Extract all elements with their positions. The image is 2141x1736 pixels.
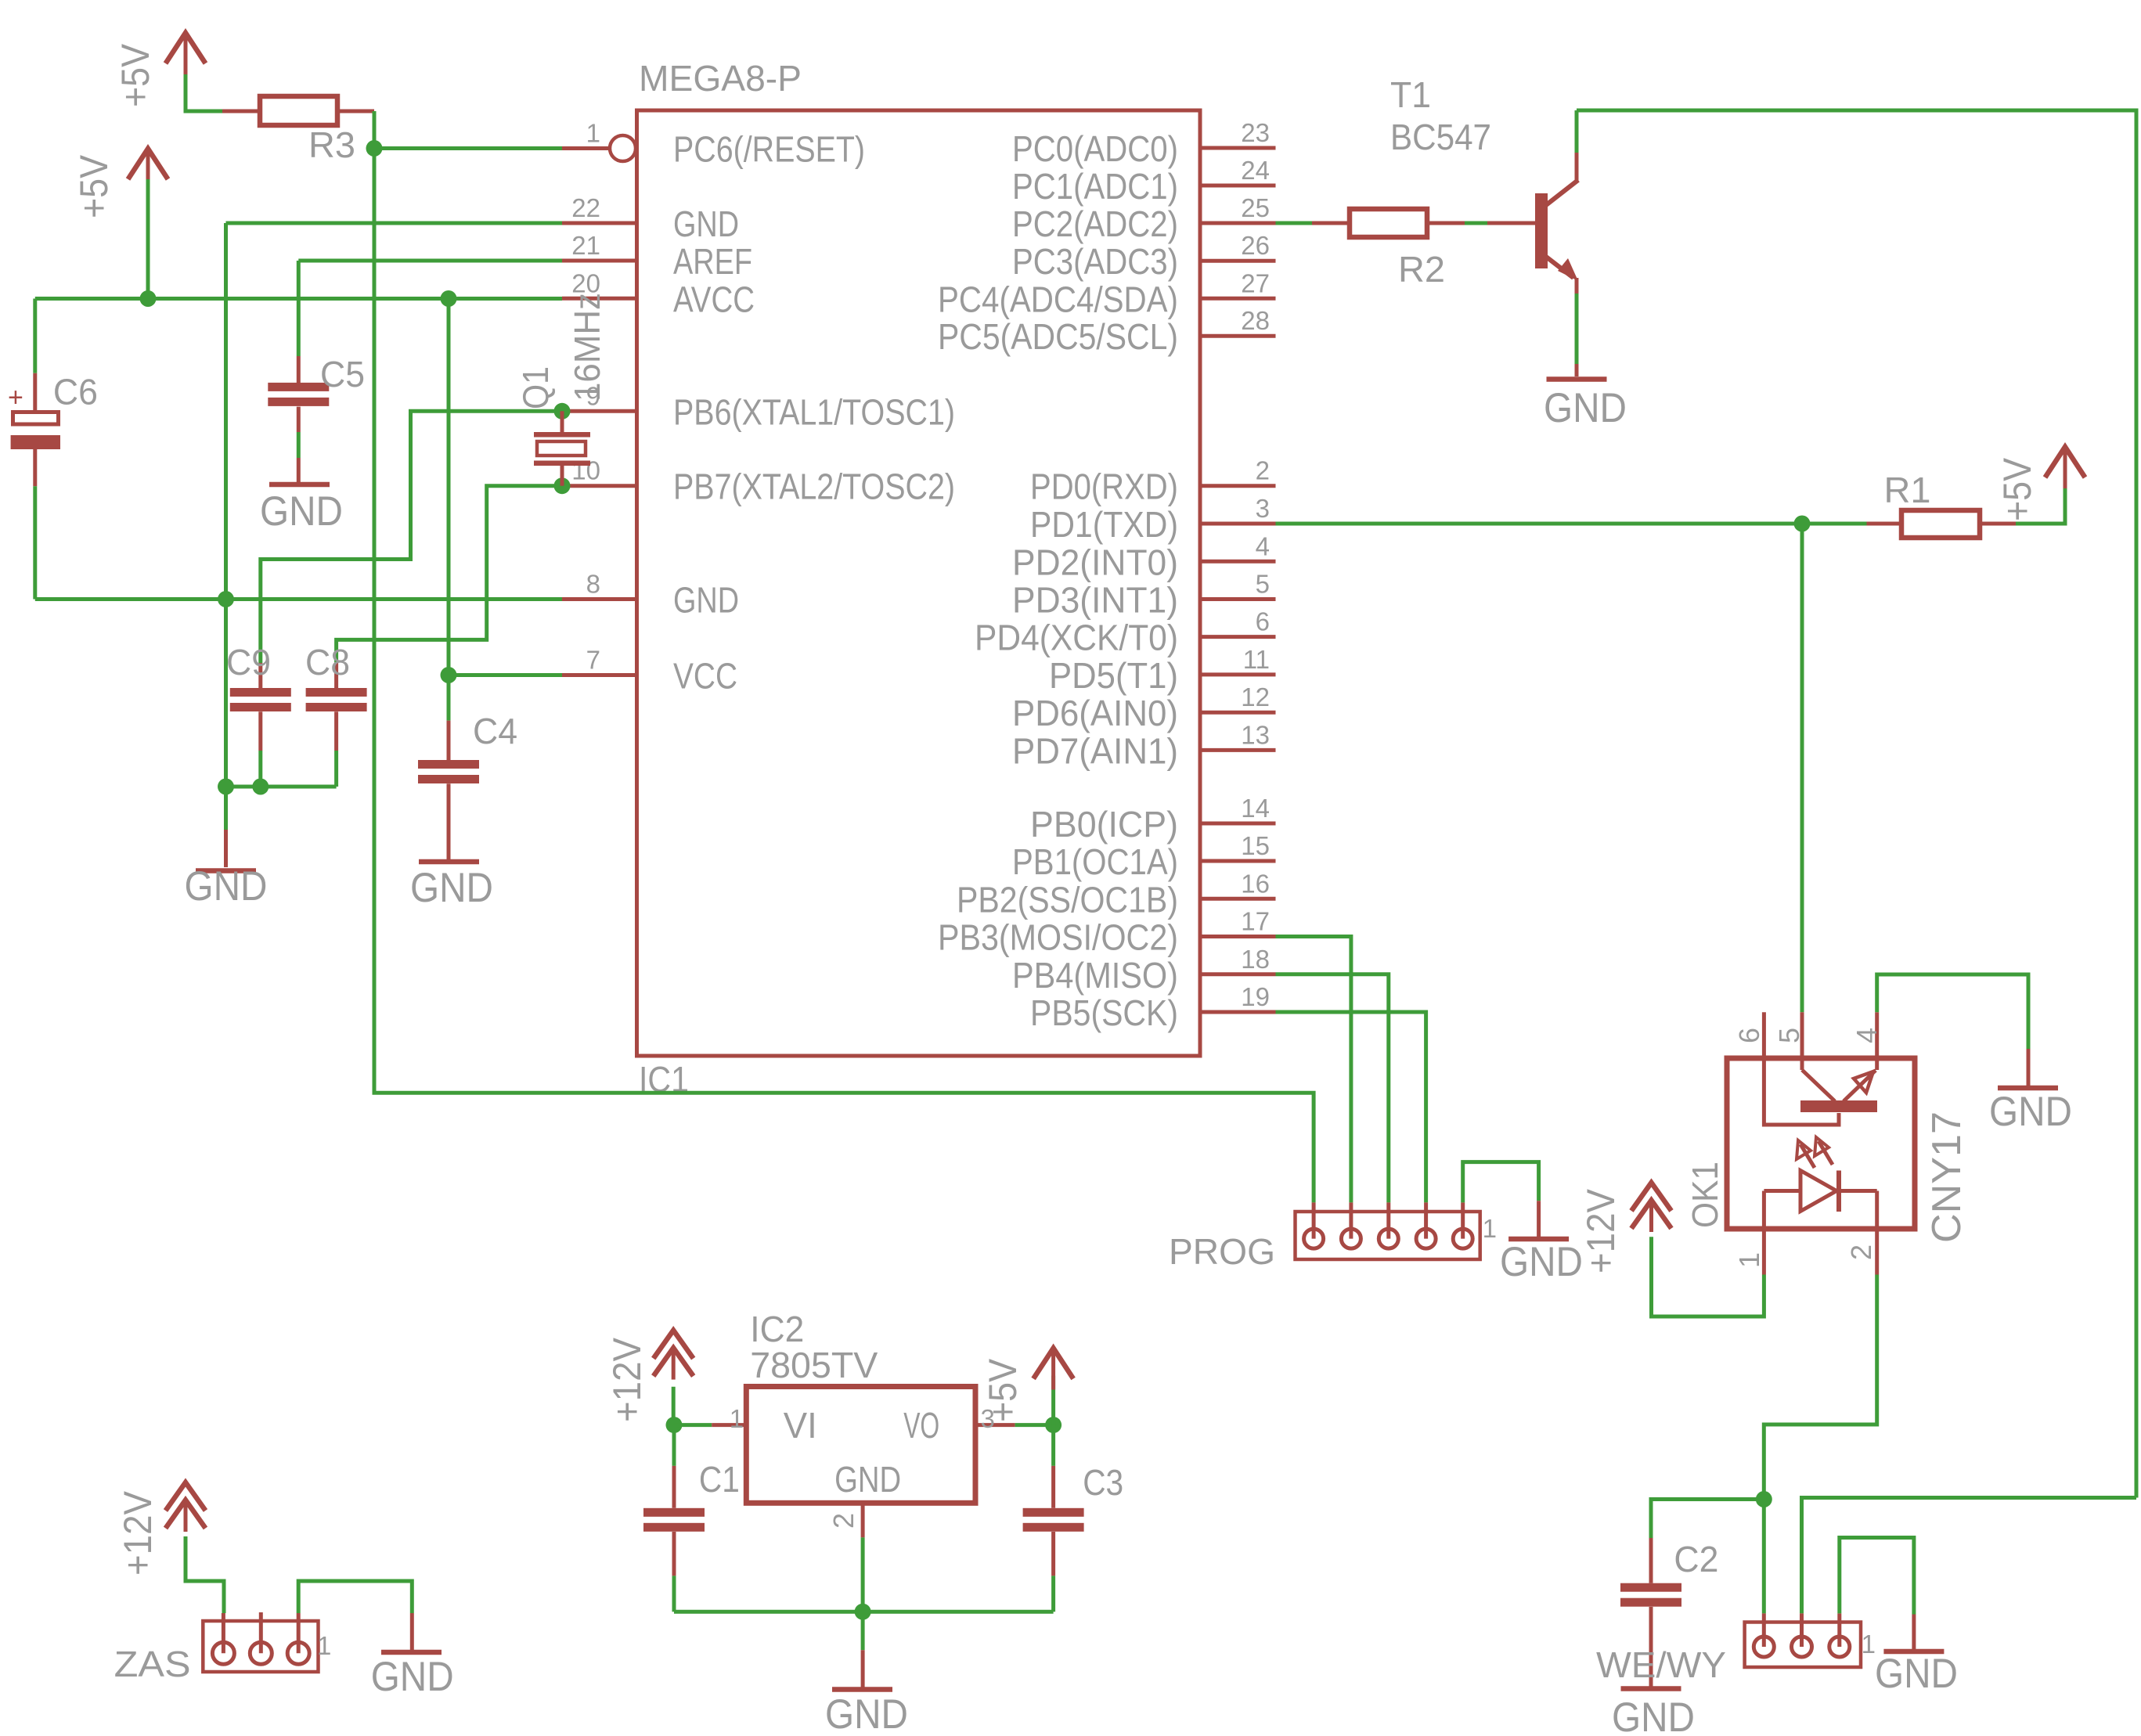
- svg-text:PD6(AIN0): PD6(AIN0): [1012, 693, 1178, 733]
- svg-text:PB0(ICP): PB0(ICP): [1030, 804, 1178, 845]
- svg-text:10: 10: [571, 456, 600, 485]
- IC1 pin 9 stub: [562, 409, 637, 413]
- svg-text:GND: GND: [834, 1459, 901, 1500]
- svg-text:1: 1: [1483, 1214, 1497, 1243]
- capacitor C1: [672, 1425, 676, 1466]
- wire R1 to +5V: [2016, 486, 2065, 524]
- wire collector net to WE/WY middle pin: [1802, 1498, 2137, 1614]
- svg-text:28: 28: [1241, 306, 1270, 335]
- svg-text:+5V: +5V: [1995, 457, 2039, 521]
- svg-text:PD2(INT0): PD2(INT0): [1012, 542, 1178, 582]
- svg-text:+12V: +12V: [605, 1337, 649, 1422]
- svg-text:PC0(ADC0): PC0(ADC0): [1012, 128, 1178, 169]
- IC1 pin 19 stub: [1201, 1010, 1276, 1014]
- junction VCC: [441, 667, 457, 683]
- wire XTAL1 net pin 9 to C9: [261, 411, 562, 663]
- ground symbol below IC2: [861, 1650, 865, 1687]
- wire T1 emitter to GND: [1575, 294, 1579, 364]
- svg-text:13: 13: [1241, 720, 1270, 749]
- IC1 pin 24 stub: [1201, 184, 1276, 188]
- junction +5V rail crystal branch: [441, 290, 457, 307]
- IC1 pin 7 stub: [562, 673, 637, 677]
- svg-text:PB1(OC1A): PB1(OC1A): [1012, 841, 1178, 882]
- wire +5V branch down to VCC pin 7: [447, 299, 451, 675]
- svg-text:GND: GND: [825, 1691, 908, 1736]
- svg-text:AVCC: AVCC: [673, 279, 755, 319]
- OK1 pin 4 lead: [1875, 1012, 1879, 1070]
- svg-text:PD1(TXD): PD1(TXD): [1030, 504, 1178, 545]
- IC2 pin 1 stub: [712, 1423, 746, 1427]
- transistor T1 BC547: [1487, 222, 1535, 225]
- IC1 pin 3 stub: [1201, 522, 1276, 526]
- svg-text:22: 22: [571, 193, 600, 222]
- IC1 pin 6 stub: [1201, 635, 1276, 639]
- wire IC2 GND down: [861, 1537, 865, 1650]
- wire T1 collector maroon stub: [1575, 153, 1579, 181]
- junction C9 bottom: [252, 779, 269, 795]
- svg-text:19: 19: [1241, 982, 1270, 1011]
- svg-text:2: 2: [827, 1513, 860, 1529]
- wire VCC pin 7: [449, 673, 562, 677]
- wire PB5 SCK to PROG: [1276, 1012, 1426, 1202]
- capacitor C4: [447, 721, 451, 760]
- wire PD1 TXD to R1: [1276, 522, 1803, 526]
- ground symbol right of ZAS: [410, 1613, 414, 1650]
- IC1 pin 2 stub: [1201, 484, 1276, 488]
- IC1 pin 28 stub: [1201, 334, 1276, 338]
- wire input junction to VI pin: [674, 1423, 712, 1427]
- wire GND pin22 horizontal: [226, 222, 563, 225]
- svg-text:GND: GND: [1989, 1089, 2072, 1135]
- junction IC2 input: [666, 1417, 683, 1433]
- svg-text:6: 6: [1256, 607, 1270, 636]
- svg-text:6: 6: [1733, 1028, 1765, 1043]
- capacitor C2: [1649, 1538, 1653, 1583]
- svg-text:C6: C6: [53, 372, 98, 412]
- svg-text:PROG: PROG: [1169, 1231, 1275, 1272]
- WE/WY pin lead 1: [1837, 1613, 1841, 1647]
- svg-text:R3: R3: [308, 124, 355, 165]
- junction GND caps: [218, 779, 234, 795]
- wire +12V to IC2 VI: [672, 1387, 676, 1425]
- ground symbol right of OK1: [2027, 1049, 2031, 1086]
- svg-text:C1: C1: [699, 1459, 740, 1500]
- IC1 pin 22 stub: [562, 222, 637, 225]
- ZAS pin lead left: [222, 1613, 225, 1653]
- svg-text:PD4(XCK/T0): PD4(XCK/T0): [975, 618, 1178, 658]
- svg-text:GND: GND: [1612, 1695, 1695, 1736]
- IC1 pin 11 stub: [1201, 672, 1276, 676]
- svg-text:PD0(RXD): PD0(RXD): [1030, 466, 1178, 507]
- svg-text:IC2: IC2: [750, 1309, 804, 1349]
- svg-text:PD5(T1): PD5(T1): [1049, 655, 1178, 696]
- svg-text:12: 12: [1241, 683, 1270, 711]
- wire GND vertical: [224, 223, 228, 830]
- junction IC2 output: [1045, 1417, 1061, 1433]
- svg-text:PC3(ADC3): PC3(ADC3): [1012, 241, 1178, 282]
- svg-text:7: 7: [586, 646, 600, 675]
- svg-text:ZAS: ZAS: [114, 1644, 191, 1684]
- svg-text:GND: GND: [1500, 1239, 1583, 1285]
- wire OK1 pin4 to GND: [1877, 974, 2028, 1049]
- wire PB4 MISO to PROG: [1276, 974, 1389, 1203]
- svg-text:16MHz: 16MHz: [567, 293, 607, 402]
- wire output junction up: [1051, 1376, 1055, 1425]
- svg-text:GND: GND: [1544, 385, 1627, 431]
- IC2 pin 2 stub: [861, 1503, 865, 1537]
- ground symbol below C9 C8: [224, 830, 228, 867]
- IC1 pin 27 stub: [1201, 297, 1276, 301]
- voltage regulator IC2 7805TV box: [746, 1387, 975, 1504]
- OK1 phototransistor base bar: [1800, 1100, 1877, 1112]
- svg-text:GND: GND: [1875, 1651, 1958, 1697]
- junction LED cathode net: [1756, 1491, 1772, 1507]
- svg-text:8: 8: [586, 570, 600, 599]
- svg-text:PB4(MISO): PB4(MISO): [1012, 955, 1178, 996]
- svg-text:17: 17: [1241, 907, 1270, 936]
- IC1 pin 5 stub: [1201, 597, 1276, 601]
- junction IC2 ground rail: [855, 1604, 871, 1620]
- svg-text:7805TV: 7805TV: [750, 1345, 878, 1385]
- svg-text:+5V: +5V: [114, 43, 157, 107]
- wire C5 to GND: [297, 432, 301, 458]
- IC1 pin 1 stub: [562, 146, 610, 150]
- wire C9 bottom: [258, 751, 262, 787]
- wire C8 bottom: [334, 751, 338, 787]
- svg-text:+12V: +12V: [1579, 1188, 1623, 1273]
- svg-text:VI: VI: [784, 1405, 817, 1446]
- IC1 pin 21 stub: [562, 259, 637, 263]
- ground symbol below C2: [1621, 1686, 1681, 1691]
- wire XTAL2 net pin 10 to C8: [337, 486, 562, 663]
- IC1 pin 16 stub: [1201, 897, 1276, 901]
- PROG pin lead 1: [1461, 1202, 1465, 1238]
- OK1 pin 1 lead: [1762, 1229, 1766, 1275]
- svg-text:1: 1: [1733, 1252, 1765, 1268]
- wire R2 to T1 base: [1465, 222, 1487, 225]
- power +12V symbol IC2: [654, 1331, 694, 1359]
- power +5V symbol IC2: [1033, 1349, 1073, 1379]
- wire GND rail to pin 8: [35, 597, 562, 601]
- OK1 pin 2 lead: [1875, 1229, 1879, 1275]
- OK1 anode internal to pin 1: [1762, 1191, 1766, 1230]
- IC1 pin 17 stub: [1201, 935, 1276, 938]
- IC1 pin 25 stub: [1201, 222, 1276, 225]
- capacitor C8: [334, 663, 338, 688]
- PROG pin lead 4: [1349, 1202, 1353, 1238]
- wire collector top rail: [1577, 110, 2136, 1498]
- svg-text:11: 11: [1243, 645, 1270, 674]
- svg-text:15: 15: [1241, 831, 1270, 860]
- svg-text:GND: GND: [673, 580, 739, 621]
- resistor R3: [222, 110, 260, 113]
- PROG pin lead 5: [1312, 1202, 1316, 1238]
- wire RESET long vertical to PROG: [374, 149, 1314, 1203]
- IC1 pin 13 stub: [1201, 748, 1276, 752]
- svg-text:23: 23: [1241, 118, 1270, 147]
- wire +5V rail to AVCC pin 20: [35, 297, 562, 301]
- svg-text:T1: T1: [1390, 74, 1431, 115]
- capacitor C3: [1051, 1425, 1055, 1466]
- OK1 LED cathode to pin 2: [1875, 1191, 1879, 1230]
- junction XTAL1 at pin 9: [554, 403, 571, 420]
- ground symbol near PROG: [1537, 1201, 1541, 1237]
- ground symbol below T1: [1575, 364, 1579, 376]
- ground symbol right of WE/WY: [1912, 1615, 1916, 1650]
- svg-text:PC4(ADC4/SDA): PC4(ADC4/SDA): [938, 279, 1178, 319]
- PROG pin lead 3: [1386, 1202, 1390, 1238]
- connector PROG 5-pin header: [1296, 1212, 1480, 1259]
- svg-text:AREF: AREF: [673, 241, 752, 282]
- capacitor C9: [258, 663, 262, 688]
- svg-text:27: 27: [1241, 268, 1270, 297]
- wire C6 minus to GND rail: [33, 486, 37, 599]
- power +12V symbol ZAS: [166, 1482, 206, 1511]
- svg-text:1: 1: [586, 119, 600, 148]
- IC1 pin 23 stub: [1201, 146, 1276, 150]
- ground symbol below C5: [297, 458, 301, 482]
- power +5V symbol second: [128, 149, 168, 179]
- svg-text:3: 3: [1256, 494, 1270, 523]
- wire +5V rail down to C6: [33, 299, 37, 373]
- svg-text:16: 16: [1241, 869, 1270, 898]
- OK1 base internal route to pin 6: [1764, 1058, 1839, 1125]
- WE/WY pin lead 3: [1762, 1613, 1766, 1647]
- wire GND caps horizontal: [226, 785, 337, 789]
- svg-text:C2: C2: [1674, 1539, 1718, 1579]
- svg-text:CNY17: CNY17: [1924, 1111, 1970, 1243]
- wire WE/WY pin1 to GND: [1840, 1538, 1914, 1615]
- junction RESET at R3: [366, 140, 383, 157]
- crystal Q1 16MHz: [560, 411, 564, 432]
- svg-text:GND: GND: [410, 865, 493, 911]
- svg-text:5: 5: [1773, 1028, 1805, 1043]
- wire AREF down to C5: [297, 261, 301, 356]
- svg-text:VCC: VCC: [673, 656, 737, 697]
- svg-text:GND: GND: [673, 203, 739, 244]
- svg-text:PB6(XTAL1/TOSC1): PB6(XTAL1/TOSC1): [673, 391, 955, 432]
- svg-text:OK1: OK1: [1685, 1162, 1725, 1228]
- IC1 pin 26 stub: [1201, 259, 1276, 263]
- svg-text:BC547: BC547: [1390, 117, 1491, 157]
- wire TXD down to OK1 pin 5: [1800, 524, 1804, 1012]
- svg-text:4: 4: [1851, 1028, 1883, 1043]
- connector WE/WY 3-pin header: [1745, 1623, 1861, 1668]
- wire VCC down to C4: [447, 675, 451, 721]
- ZAS pin lead middle: [259, 1612, 263, 1653]
- svg-text:PD3(INT1): PD3(INT1): [1012, 580, 1178, 621]
- svg-text:2: 2: [1256, 456, 1270, 485]
- svg-text:26: 26: [1241, 231, 1270, 260]
- svg-text:C4: C4: [473, 711, 517, 751]
- wire junction to C2: [1651, 1500, 1764, 1539]
- wire +5V arrow to rail: [146, 179, 150, 299]
- wire C1 bottom to rail: [672, 1576, 676, 1612]
- IC1 pin 8 stub: [562, 597, 637, 601]
- svg-text:MEGA8-P: MEGA8-P: [639, 58, 802, 99]
- svg-text:+5V: +5V: [981, 1358, 1025, 1422]
- wire OK1 pin2 to WE/WY and C2: [1764, 1275, 1876, 1614]
- ground symbol below C4: [419, 859, 479, 865]
- svg-text:PC2(ADC2): PC2(ADC2): [1012, 203, 1178, 244]
- IC1 pin 20 stub: [562, 297, 637, 301]
- svg-text:14: 14: [1241, 794, 1270, 823]
- svg-text:4: 4: [1256, 531, 1270, 560]
- svg-text:24: 24: [1241, 156, 1270, 185]
- svg-text:PC1(ADC1): PC1(ADC1): [1012, 166, 1178, 207]
- wire AREF pin 21: [298, 259, 562, 263]
- svg-text:GND: GND: [185, 863, 268, 909]
- OK1 LED diode: [1800, 1171, 1836, 1212]
- wire PC2 to R2: [1276, 222, 1313, 225]
- svg-text:C8: C8: [305, 642, 350, 683]
- svg-text:21: 21: [571, 231, 600, 260]
- IC2 pin 3 stub: [975, 1423, 1015, 1427]
- svg-text:PB5(SCK): PB5(SCK): [1030, 992, 1178, 1033]
- capacitor C6 electrolytic: [33, 373, 37, 411]
- svg-text:+12V: +12V: [116, 1490, 160, 1576]
- wire C3 bottom to rail: [1051, 1576, 1055, 1612]
- OK1 collector diagonal: [1802, 1070, 1835, 1101]
- IC1 pin 18 stub: [1201, 972, 1276, 976]
- svg-text:PC6(/RESET): PC6(/RESET): [673, 129, 865, 170]
- wire +12V to ZAS pin: [186, 1536, 224, 1613]
- svg-text:+5V: +5V: [72, 154, 116, 218]
- connector ZAS 3-pin header: [203, 1621, 318, 1672]
- OK1 emitter diagonal with arrow: [1844, 1071, 1876, 1102]
- wire PROG pin1 to GND: [1463, 1162, 1539, 1203]
- IC U1 - IC1 MEGA8-P microcontroller box: [637, 110, 1201, 1056]
- resistor R2: [1312, 222, 1350, 225]
- svg-text:C3: C3: [1083, 1462, 1123, 1503]
- svg-text:1: 1: [317, 1631, 331, 1660]
- IC1 pin 12 stub: [1201, 711, 1276, 715]
- power +12V symbol near OK1: [1631, 1183, 1671, 1211]
- svg-text:R1: R1: [1884, 470, 1931, 510]
- junction XTAL2 at pin 10: [554, 477, 571, 494]
- svg-text:PB7(XTAL2/TOSC2): PB7(XTAL2/TOSC2): [673, 466, 955, 507]
- junction +5V rail left: [140, 290, 157, 307]
- svg-text:5: 5: [1256, 570, 1270, 599]
- svg-text:25: 25: [1241, 193, 1270, 222]
- ZAS pin lead right: [297, 1613, 301, 1653]
- junction TXD at R1: [1794, 516, 1811, 532]
- svg-text:VO: VO: [903, 1405, 939, 1446]
- IC1 pin 15 stub: [1201, 859, 1276, 863]
- svg-text:GND: GND: [260, 488, 343, 535]
- svg-text:GND: GND: [371, 1654, 454, 1700]
- svg-text:1: 1: [1862, 1630, 1876, 1659]
- OK1 pin 6 lead: [1762, 1012, 1766, 1058]
- WE/WY pin lead 2: [1800, 1613, 1804, 1647]
- power +5V symbol right: [2045, 447, 2085, 477]
- wire IC2 ground rail: [674, 1610, 1054, 1614]
- wire ZAS right pin to GND: [298, 1581, 412, 1613]
- svg-text:1: 1: [730, 1404, 744, 1433]
- svg-text:PB3(MOSI/OC2): PB3(MOSI/OC2): [938, 917, 1178, 958]
- wire +5V to R3: [186, 74, 222, 111]
- svg-text:Q1: Q1: [515, 366, 556, 409]
- svg-text:PB2(SS/OC1B): PB2(SS/OC1B): [957, 879, 1178, 920]
- IC1 pin 10 stub: [562, 484, 637, 488]
- resistor R1: [1867, 522, 1902, 526]
- svg-text:18: 18: [1241, 945, 1270, 974]
- wire VO to +5V: [1015, 1423, 1054, 1427]
- OK1 LED arrows: [1800, 1144, 1815, 1168]
- capacitor C5: [297, 356, 301, 383]
- wire PB3 MOSI to PROG: [1276, 937, 1351, 1203]
- optocoupler OK1 CNY17 box: [1727, 1058, 1915, 1229]
- wire junction to R1: [1802, 522, 1867, 526]
- svg-text:R2: R2: [1398, 249, 1445, 290]
- OK1 pin 5 lead: [1800, 1012, 1804, 1070]
- svg-text:PC5(ADC5/SCL): PC5(ADC5/SCL): [938, 316, 1178, 357]
- wire RESET net: [374, 111, 562, 149]
- IC1 pin 14 stub: [1201, 822, 1276, 826]
- IC1 pin 4 stub: [1201, 560, 1276, 564]
- wire T1 collector up and right: [1575, 110, 1579, 153]
- wire +12V to OK1 pin 1: [1652, 1237, 1764, 1316]
- PROG pin lead 2: [1424, 1202, 1428, 1238]
- junction GND rail: [218, 591, 234, 607]
- svg-text:+: +: [8, 383, 23, 412]
- svg-text:2: 2: [1845, 1244, 1877, 1260]
- svg-text:WE/WY: WE/WY: [1596, 1644, 1726, 1685]
- svg-text:C5: C5: [320, 354, 365, 394]
- svg-text:PD7(AIN1): PD7(AIN1): [1012, 730, 1178, 771]
- power +5V symbol top-left: [166, 33, 206, 63]
- svg-text:C9: C9: [226, 642, 271, 683]
